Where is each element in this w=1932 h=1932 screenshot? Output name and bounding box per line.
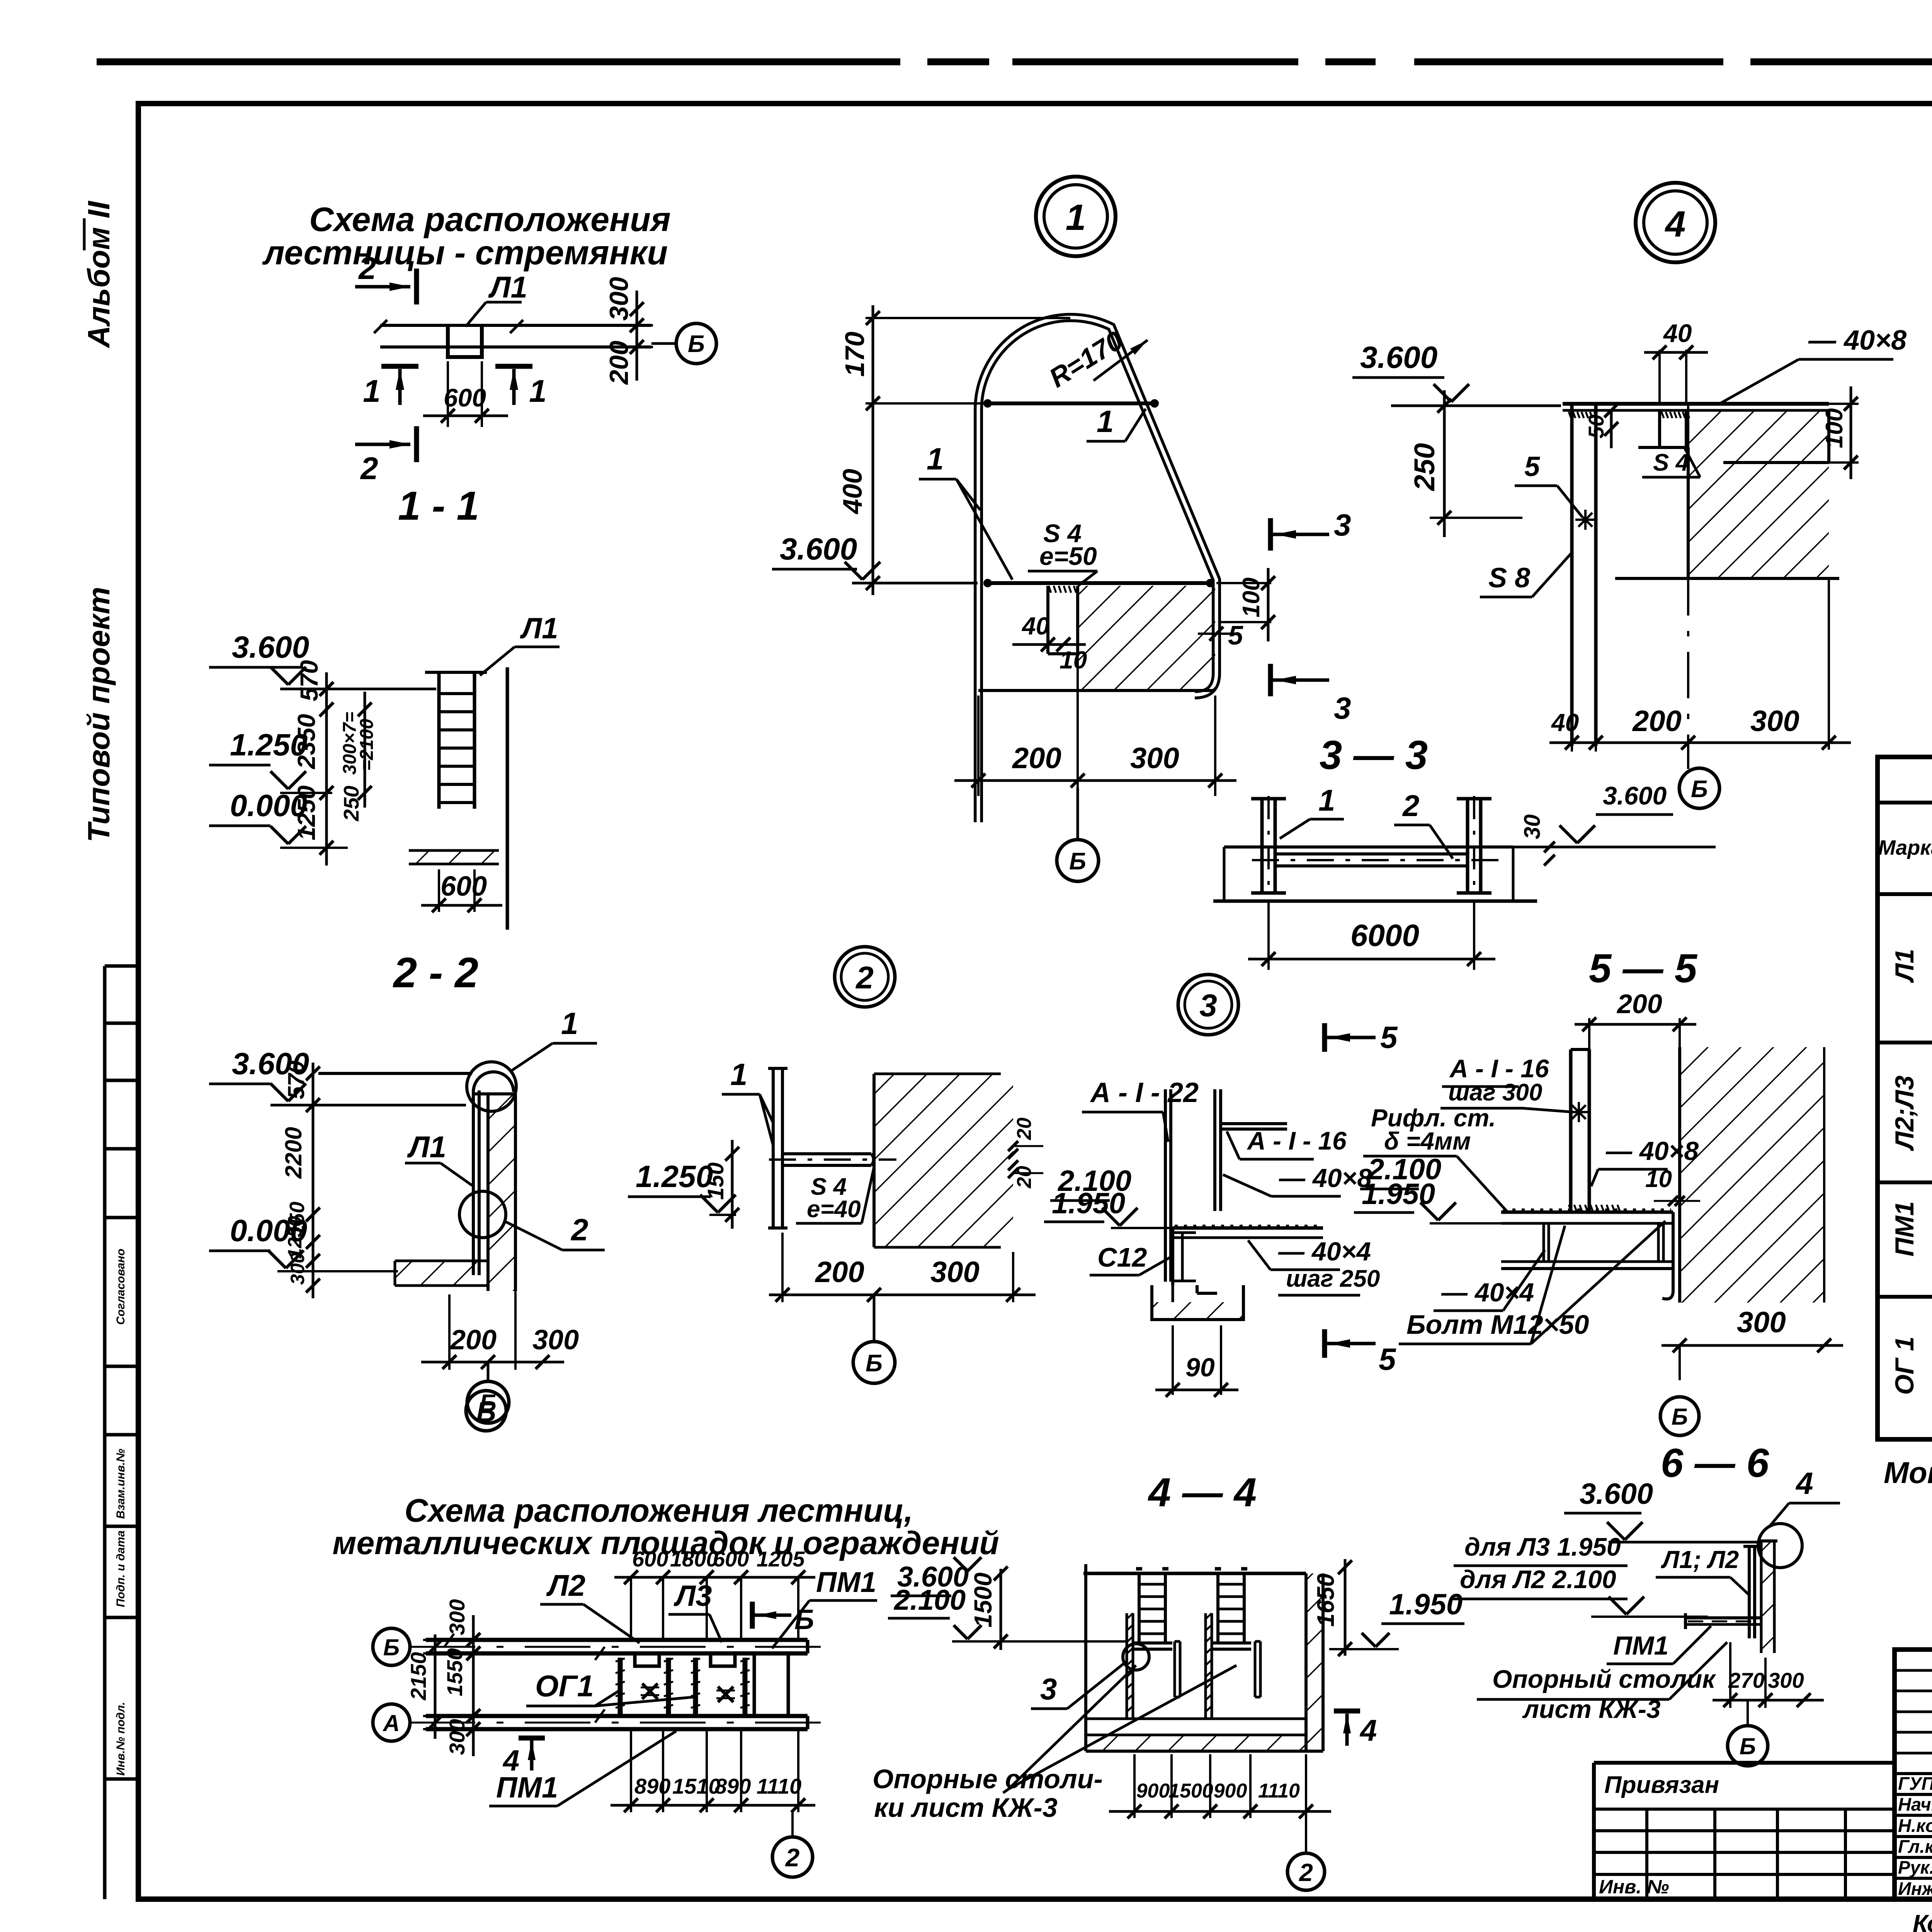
svg-text:1110: 1110 (757, 1774, 801, 1798)
svg-text:=2100: =2100 (357, 719, 377, 771)
svg-text:Л1: Л1 (407, 1130, 446, 1164)
svg-text:2: 2 (855, 960, 874, 995)
svg-text:А - I - 16: А - I - 16 (1247, 1126, 1347, 1155)
svg-text:1: 1 (1097, 404, 1114, 439)
svg-text:4: 4 (1665, 204, 1686, 245)
svg-text:30: 30 (1520, 814, 1545, 839)
svg-text:Л1: Л1 (488, 270, 527, 304)
svg-text:Схема расположения лестниц,: Схема расположения лестниц, (405, 1492, 913, 1529)
svg-text:1250: 1250 (284, 1216, 306, 1259)
svg-text:20: 20 (1013, 1166, 1036, 1189)
svg-text:2200: 2200 (281, 1127, 306, 1179)
svg-text:— 40×8: — 40×8 (1605, 1136, 1699, 1166)
svg-text:1.950: 1.950 (1389, 1588, 1463, 1621)
svg-text:2.100: 2.100 (893, 1584, 966, 1616)
svg-text:200: 200 (604, 340, 634, 385)
svg-text:Инв.№ подл.: Инв.№ подл. (114, 1702, 127, 1776)
svg-text:лестницы - стремянки: лестницы - стремянки (262, 233, 668, 272)
svg-text:Марка: Марка (1878, 836, 1932, 859)
svg-text:5: 5 (1379, 1342, 1396, 1376)
svg-text:40: 40 (1663, 319, 1692, 347)
svg-text:1250: 1250 (293, 786, 320, 840)
svg-text:1550: 1550 (442, 1648, 467, 1696)
svg-text:А - I - 22: А - I - 22 (1090, 1077, 1199, 1108)
svg-text:Б: Б (1691, 776, 1708, 803)
svg-text:1: 1 (1318, 783, 1335, 817)
svg-text:1800: 1800 (670, 1547, 718, 1571)
svg-text:Б: Б (1069, 848, 1086, 875)
svg-text:20: 20 (1013, 1117, 1036, 1140)
svg-text:А: А (382, 1710, 400, 1736)
svg-text:10: 10 (1645, 1166, 1672, 1192)
svg-text:Взам.инв.№: Взам.инв.№ (114, 1449, 127, 1519)
svg-text:4: 4 (1795, 1466, 1813, 1500)
svg-text:300: 300 (1750, 705, 1799, 738)
svg-text:— 40×4: — 40×4 (1441, 1278, 1534, 1307)
svg-text:3: 3 (1199, 988, 1217, 1023)
svg-text:e=50: e=50 (1039, 542, 1097, 570)
svg-text:200: 200 (1012, 742, 1061, 775)
svg-text:С12: С12 (1097, 1242, 1147, 1272)
svg-text:Л2: Л2 (546, 1568, 585, 1602)
svg-text:Монтажные швы - h: Монтажные швы - h (1884, 1456, 1932, 1490)
svg-text:Альбом II: Альбом II (82, 201, 116, 349)
svg-text:Н.конт.: Н.конт. (1898, 1815, 1932, 1836)
svg-text:1.250: 1.250 (636, 1159, 713, 1194)
svg-text:— 40×4: — 40×4 (1278, 1237, 1371, 1266)
svg-text:3.600: 3.600 (780, 532, 857, 566)
svg-text:1650: 1650 (1313, 1573, 1339, 1627)
svg-text:1500: 1500 (969, 1573, 997, 1628)
svg-text:Гл.конст: Гл.конст (1898, 1836, 1932, 1857)
svg-text:600: 600 (713, 1547, 749, 1571)
svg-text:1 - 1: 1 - 1 (398, 483, 479, 529)
svg-text:3: 3 (1040, 1672, 1057, 1706)
svg-text:5: 5 (1380, 1020, 1398, 1054)
svg-text:Опорные столи-: Опорные столи- (872, 1764, 1103, 1794)
svg-text:3 — 3: 3 — 3 (1320, 733, 1428, 778)
svg-text:300: 300 (604, 277, 634, 321)
svg-text:1: 1 (363, 374, 381, 409)
svg-text:2: 2 (785, 1843, 800, 1872)
svg-text:4: 4 (502, 1744, 519, 1777)
svg-text:170: 170 (840, 332, 870, 377)
svg-text:1205: 1205 (757, 1547, 805, 1571)
svg-text:300: 300 (445, 1719, 469, 1755)
svg-text:ГУП: ГУП (1898, 1773, 1932, 1794)
svg-text:шаг 250: шаг 250 (1286, 1265, 1380, 1292)
svg-text:Копировал Кожухов: Копировал Кожухов (1913, 1910, 1932, 1932)
svg-text:для Л2 2.100: для Л2 2.100 (1460, 1565, 1616, 1594)
svg-text:900: 900 (1214, 1780, 1247, 1802)
svg-text:2350: 2350 (293, 714, 320, 769)
svg-text:Подп. и дата: Подп. и дата (114, 1531, 127, 1607)
svg-text:Нач.АСО: Нач.АСО (1898, 1794, 1932, 1815)
svg-text:570: 570 (295, 660, 323, 701)
svg-text:шаг 300: шаг 300 (1448, 1079, 1542, 1106)
svg-text:5: 5 (1228, 620, 1243, 650)
svg-text:Инж.: Инж. (1898, 1878, 1932, 1899)
svg-text:2: 2 (1299, 1859, 1313, 1886)
svg-text:3.600: 3.600 (232, 630, 309, 664)
svg-text:3.600: 3.600 (1580, 1478, 1653, 1510)
svg-text:Типовой проект: Типовой проект (82, 587, 116, 842)
svg-text:600: 600 (440, 871, 487, 902)
svg-text:— 40×8: — 40×8 (1279, 1163, 1372, 1193)
svg-text:890: 890 (715, 1774, 751, 1798)
svg-text:2: 2 (570, 1213, 588, 1247)
svg-text:250: 250 (339, 786, 363, 821)
svg-text:5 — 5: 5 — 5 (1589, 946, 1698, 991)
svg-text:ПМ1: ПМ1 (1613, 1631, 1668, 1660)
svg-text:4 — 4: 4 — 4 (1148, 1470, 1257, 1515)
svg-text:1: 1 (561, 1006, 578, 1041)
svg-text:1500: 1500 (1168, 1780, 1213, 1802)
svg-text:200: 200 (449, 1325, 497, 1355)
svg-text:600: 600 (444, 383, 486, 412)
svg-text:2: 2 (1402, 789, 1419, 823)
svg-text:Л1; Л2: Л1; Л2 (1661, 1546, 1739, 1573)
svg-text:200: 200 (815, 1256, 864, 1289)
svg-text:300: 300 (1130, 742, 1179, 775)
svg-text:50: 50 (1584, 415, 1608, 439)
svg-text:1.950: 1.950 (1052, 1187, 1125, 1220)
svg-text:300: 300 (1768, 1668, 1804, 1692)
svg-text:200: 200 (1616, 989, 1662, 1019)
svg-text:100: 100 (1238, 578, 1265, 617)
svg-text:40: 40 (1021, 612, 1049, 640)
svg-text:2: 2 (358, 251, 376, 286)
svg-text:Согласовано: Согласовано (114, 1248, 127, 1325)
svg-text:Б: Б (688, 331, 705, 357)
svg-text:1: 1 (529, 374, 547, 409)
svg-text:1510: 1510 (672, 1774, 721, 1798)
svg-text:400: 400 (837, 469, 867, 515)
svg-text:Б: Б (476, 1397, 496, 1428)
svg-text:S 8: S 8 (1488, 563, 1530, 594)
svg-text:90: 90 (1185, 1353, 1215, 1382)
svg-text:Инв. №: Инв. № (1599, 1876, 1669, 1898)
svg-text:1: 1 (927, 442, 944, 476)
svg-text:300: 300 (1737, 1306, 1786, 1339)
svg-text:2 - 2: 2 - 2 (393, 949, 478, 997)
svg-text:6 — 6: 6 — 6 (1661, 1440, 1769, 1486)
svg-text:1: 1 (1066, 197, 1086, 238)
svg-text:300: 300 (930, 1256, 980, 1289)
svg-text:2150: 2150 (406, 1652, 430, 1701)
svg-text:5: 5 (1524, 451, 1540, 482)
svg-text:ОГ 1: ОГ 1 (1890, 1337, 1919, 1395)
svg-text:Опорный столик: Опорный столик (1492, 1665, 1716, 1693)
svg-text:Б: Б (1740, 1733, 1756, 1759)
svg-text:Б: Б (866, 1350, 883, 1377)
svg-text:e=40: e=40 (807, 1196, 861, 1223)
svg-text:570: 570 (283, 1061, 309, 1099)
svg-text:— 40×8: — 40×8 (1808, 325, 1906, 356)
svg-text:для Л3 1.950: для Л3 1.950 (1464, 1532, 1621, 1561)
svg-text:300: 300 (532, 1325, 579, 1355)
svg-text:Привязан: Привязан (1604, 1772, 1719, 1798)
svg-text:Схема расположения: Схема расположения (309, 200, 671, 238)
svg-text:3: 3 (1334, 691, 1351, 725)
svg-text:ОГ1: ОГ1 (535, 1669, 594, 1703)
svg-text:6000: 6000 (1350, 918, 1419, 952)
svg-text:ПМ1: ПМ1 (1890, 1201, 1919, 1257)
svg-text:Л1: Л1 (520, 612, 558, 645)
svg-text:1: 1 (730, 1057, 748, 1092)
svg-text:200: 200 (1632, 705, 1682, 738)
svg-text:Л3: Л3 (673, 1580, 712, 1612)
svg-text:Б: Б (1672, 1404, 1688, 1430)
svg-text:270: 270 (1728, 1668, 1764, 1692)
svg-text:3: 3 (1334, 508, 1351, 542)
svg-text:ки лист КЖ-3: ки лист КЖ-3 (874, 1793, 1058, 1823)
svg-text:600: 600 (632, 1547, 668, 1571)
svg-text:250: 250 (1408, 443, 1440, 492)
svg-text:А - I - 16: А - I - 16 (1449, 1054, 1549, 1083)
svg-text:Л1: Л1 (1890, 949, 1919, 983)
svg-text:S 4: S 4 (1653, 449, 1689, 476)
svg-text:150: 150 (703, 1162, 728, 1200)
svg-text:4: 4 (1359, 1713, 1377, 1747)
svg-text:Л2;Л3: Л2;Л3 (1890, 1075, 1919, 1151)
svg-text:Рук.гр.: Рук.гр. (1898, 1857, 1932, 1878)
svg-text:1110: 1110 (1258, 1780, 1300, 1802)
svg-text:3.600: 3.600 (1603, 781, 1667, 810)
svg-text:3.600: 3.600 (1360, 340, 1437, 374)
svg-text:900: 900 (1136, 1780, 1170, 1802)
svg-text:2: 2 (360, 451, 378, 486)
svg-text:ПМ1: ПМ1 (816, 1566, 876, 1598)
svg-text:40: 40 (1551, 709, 1579, 736)
svg-text:300: 300 (287, 1252, 308, 1285)
svg-text:Б: Б (383, 1634, 400, 1660)
svg-text:890: 890 (634, 1774, 670, 1798)
svg-text:300: 300 (445, 1599, 469, 1635)
svg-text:δ =4мм: δ =4мм (1384, 1127, 1471, 1155)
